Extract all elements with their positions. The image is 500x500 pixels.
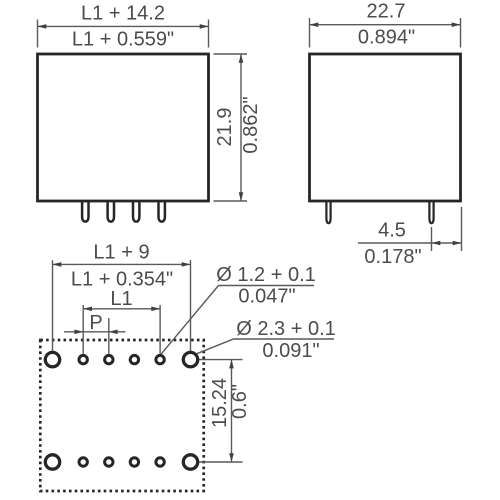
svg-text:15.24: 15.24 [209, 378, 231, 428]
svg-text:0.178": 0.178" [364, 246, 421, 268]
svg-text:Ø 1.2 + 0.1: Ø 1.2 + 0.1 [216, 264, 316, 286]
svg-text:0.091": 0.091" [262, 340, 319, 362]
svg-text:L1 + 0.559": L1 + 0.559" [72, 29, 174, 51]
svg-text:21.9: 21.9 [214, 108, 236, 147]
svg-text:L1: L1 [110, 288, 132, 310]
svg-text:P: P [89, 312, 102, 334]
svg-text:22.7: 22.7 [367, 1, 406, 23]
svg-text:0.862": 0.862" [240, 96, 262, 153]
svg-text:Ø 2.3 + 0.1: Ø 2.3 + 0.1 [236, 318, 336, 340]
svg-text:0.6": 0.6" [229, 384, 251, 419]
svg-text:L1 + 14.2: L1 + 14.2 [81, 3, 165, 25]
svg-text:0.894": 0.894" [358, 27, 415, 49]
svg-text:L1 + 9: L1 + 9 [93, 242, 149, 264]
svg-text:4.5: 4.5 [378, 219, 406, 241]
svg-text:0.047": 0.047" [238, 286, 295, 308]
